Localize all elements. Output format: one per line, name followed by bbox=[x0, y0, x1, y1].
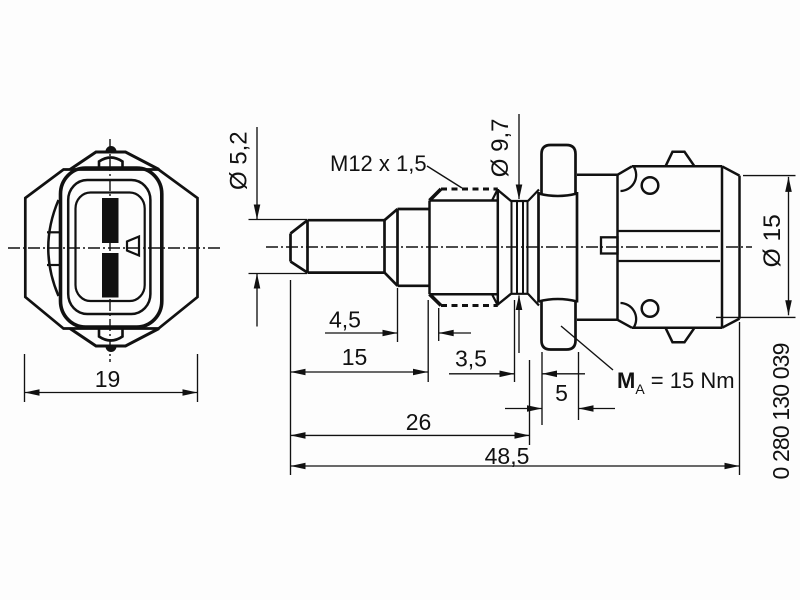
terminal slot square bbox=[601, 237, 618, 253]
latch hole top bbox=[642, 177, 659, 194]
dim 3,5 ext line left bbox=[514, 300, 516, 382]
dim 48,5 ext line left bbox=[290, 280, 292, 475]
svg-text:26: 26 bbox=[406, 409, 432, 435]
svg-text:19: 19 bbox=[95, 366, 121, 392]
dim 4,5 arrows bbox=[325, 330, 471, 337]
shank cylinder bbox=[398, 209, 430, 286]
keyway line upper bbox=[618, 230, 721, 232]
svg-text:5: 5 bbox=[555, 380, 568, 406]
svg-text:Ø 5,2: Ø 5,2 bbox=[226, 131, 253, 190]
dim 26 line with arrows bbox=[291, 432, 530, 439]
tip chamfer bbox=[291, 220, 308, 272]
hex top pill bbox=[542, 145, 576, 194]
dim 19 line with arrows bbox=[25, 389, 198, 396]
svg-text:Ø 15: Ø 15 bbox=[759, 214, 786, 267]
flange disc bbox=[577, 175, 618, 320]
dia 5,2 ext lines bbox=[249, 220, 308, 274]
vertical centerline left view bbox=[109, 139, 111, 362]
neck vertical lines bbox=[512, 201, 528, 294]
dim 5 ext line right bbox=[578, 352, 580, 420]
dim 48,5 line with arrows bbox=[291, 463, 740, 470]
dim 15 line with arrows bbox=[291, 369, 429, 376]
horizontal centerline side view bbox=[266, 246, 752, 248]
body chamfer top-left bbox=[618, 166, 633, 175]
latch ear top bbox=[666, 152, 695, 167]
hex waist arc bottom bbox=[539, 299, 578, 302]
rear chamfer top bbox=[722, 166, 740, 175]
dim 19 ext line right bbox=[197, 354, 199, 402]
pin blade upper bbox=[102, 198, 119, 243]
hex nut middle band bbox=[539, 192, 578, 303]
tip cylinder bbox=[308, 220, 385, 272]
bottom latch roof bbox=[70, 329, 159, 347]
inner cavity rounded rect bbox=[76, 193, 145, 302]
dim 3,5 arrows bbox=[449, 371, 585, 378]
thread end chamfers bbox=[492, 189, 498, 306]
dim 15 ext line right bbox=[427, 300, 429, 382]
middle shroud rounded rect bbox=[68, 180, 150, 314]
cone to hex bbox=[528, 190, 539, 306]
dim 19 ext line left bbox=[24, 354, 26, 402]
octagon housing outline bbox=[25, 170, 197, 329]
latch ear bottom bbox=[666, 328, 695, 342]
body bottom edge bbox=[632, 327, 722, 330]
dim 48,5 ext line right bbox=[739, 322, 741, 475]
dim 4,5 ext line right bbox=[438, 308, 440, 341]
svg-text:3,5: 3,5 bbox=[455, 345, 487, 371]
body chamfer bottom-left bbox=[618, 320, 633, 328]
rear face bbox=[738, 176, 741, 319]
rear chamfer bottom bbox=[722, 319, 740, 328]
svg-text:48,5: 48,5 bbox=[485, 443, 530, 469]
dim 26 ext line right bbox=[529, 360, 531, 445]
body rear face bbox=[721, 166, 724, 327]
arc tick lower bbox=[47, 264, 60, 266]
thread end face bbox=[497, 189, 500, 306]
sensor tip face bbox=[289, 234, 292, 262]
hex bottom pill bbox=[542, 302, 576, 350]
dim 4,5 ext line left bbox=[397, 288, 399, 342]
bottom latch bump bbox=[107, 347, 116, 352]
svg-text:Ø 9,7: Ø 9,7 bbox=[487, 119, 514, 178]
dia 15 dim line with arrows bbox=[785, 177, 792, 315]
svg-text:4,5: 4,5 bbox=[329, 307, 361, 333]
dia 9,7 dim line lower bbox=[516, 295, 523, 353]
svg-text:MA = 15 Nm: MA = 15 Nm bbox=[617, 368, 735, 397]
top latch bump bbox=[107, 147, 116, 152]
outer shroud rounded rect bbox=[61, 168, 162, 327]
svg-text:15: 15 bbox=[342, 344, 368, 370]
MA torque leader bbox=[561, 326, 613, 370]
top latch roof bbox=[70, 152, 159, 170]
dia 15 ext lines bbox=[716, 176, 796, 318]
latch hole bottom bbox=[642, 300, 659, 317]
arc tick upper bbox=[47, 231, 60, 233]
collar arc bottom bbox=[621, 303, 637, 327]
dim 5 ext line left bbox=[541, 352, 543, 425]
top latch inner arch bbox=[99, 158, 123, 170]
M12 leader line bbox=[427, 166, 462, 188]
thread start face bbox=[428, 201, 431, 295]
thread crest dashed lines bbox=[441, 189, 498, 306]
hex waist arc top bbox=[539, 194, 578, 197]
thread runout to neck bbox=[498, 190, 511, 305]
pin blade lower bbox=[102, 253, 119, 298]
dim 5 arrows bbox=[505, 405, 615, 412]
dia 9,7 dim line upper bbox=[516, 114, 523, 200]
dia 5,2 dim line upper bbox=[254, 127, 261, 220]
bottom latch inner arch bbox=[99, 329, 123, 341]
body top edge bbox=[632, 165, 722, 168]
thread root lines bbox=[430, 201, 498, 295]
dia 5,2 dim line lower bbox=[254, 274, 261, 327]
polarizing keystone notch bbox=[127, 237, 139, 256]
collar arc top bbox=[621, 167, 637, 191]
circular body arc behind left side bbox=[48, 200, 58, 296]
svg-text:0 280 130 039: 0 280 130 039 bbox=[768, 343, 794, 479]
step chamfer to shank bbox=[385, 209, 398, 286]
thread start chamfers bbox=[430, 189, 442, 306]
svg-text:M12 x 1,5: M12 x 1,5 bbox=[330, 151, 427, 176]
neck edges bbox=[511, 201, 528, 294]
horizontal centerline left view bbox=[8, 247, 223, 249]
keyway line lower bbox=[618, 260, 721, 262]
